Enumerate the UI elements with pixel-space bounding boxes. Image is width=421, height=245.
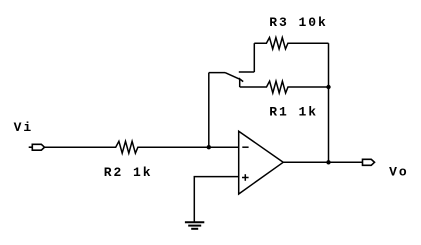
port Vi <box>29 144 45 150</box>
op-amp U1 <box>239 131 284 194</box>
op-amp minus sign <box>242 146 248 148</box>
node junction dot R1/R3 <box>326 85 330 89</box>
wire from node A up to switch <box>208 73 210 148</box>
svg-text:Vo: Vo <box>389 165 409 180</box>
wire right vertical feedback <box>328 43 330 162</box>
svg-text:R1 1k: R1 1k <box>269 105 318 120</box>
svg-text:R3 10k: R3 10k <box>269 15 328 30</box>
resistor R1 with feedback wire <box>240 81 329 93</box>
port Vo <box>363 159 375 165</box>
wire input net with resistor R2 <box>45 141 239 153</box>
svg-text:R2 1k: R2 1k <box>104 165 153 180</box>
wire output <box>283 161 362 163</box>
switch S1 <box>209 43 255 87</box>
node junction dot output <box>326 160 330 164</box>
svg-text:Vi: Vi <box>14 120 34 135</box>
wire plus input <box>194 177 238 223</box>
ground <box>185 222 204 229</box>
resistor R3 with top feedback wire <box>254 38 328 50</box>
node A junction dot at input of op-amp <box>207 145 211 149</box>
op-amp plus sign <box>242 174 249 181</box>
